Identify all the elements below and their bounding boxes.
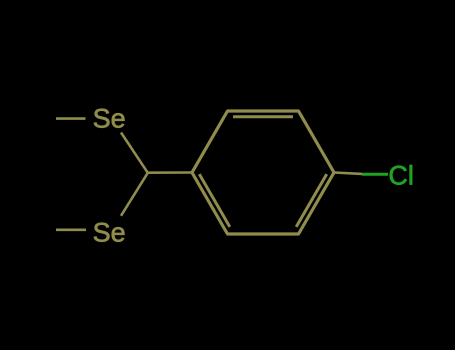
benzene ring outline [192, 111, 334, 234]
bond methyl-Se (top) [56, 117, 86, 120]
bond ring-Cl chlorine half (green) [362, 173, 388, 176]
double bond inner line (top edge) [233, 115, 293, 118]
bond methyl-Se (bottom) [56, 229, 86, 232]
bond Se-C (bottom) [121, 173, 148, 216]
double bond inner line (lower-right edge) [296, 174, 327, 227]
svg-text:Se: Se [93, 104, 126, 134]
bond ring-Cl carbon half (olive) [334, 173, 362, 174]
double bond inner line (lower-left edge) [199, 174, 230, 227]
bond Se-C (top) [121, 133, 148, 173]
bond C-ring (to left vertex of benzene) [147, 171, 193, 174]
svg-text:Cl: Cl [388, 161, 414, 191]
svg-text:Se: Se [93, 218, 126, 248]
